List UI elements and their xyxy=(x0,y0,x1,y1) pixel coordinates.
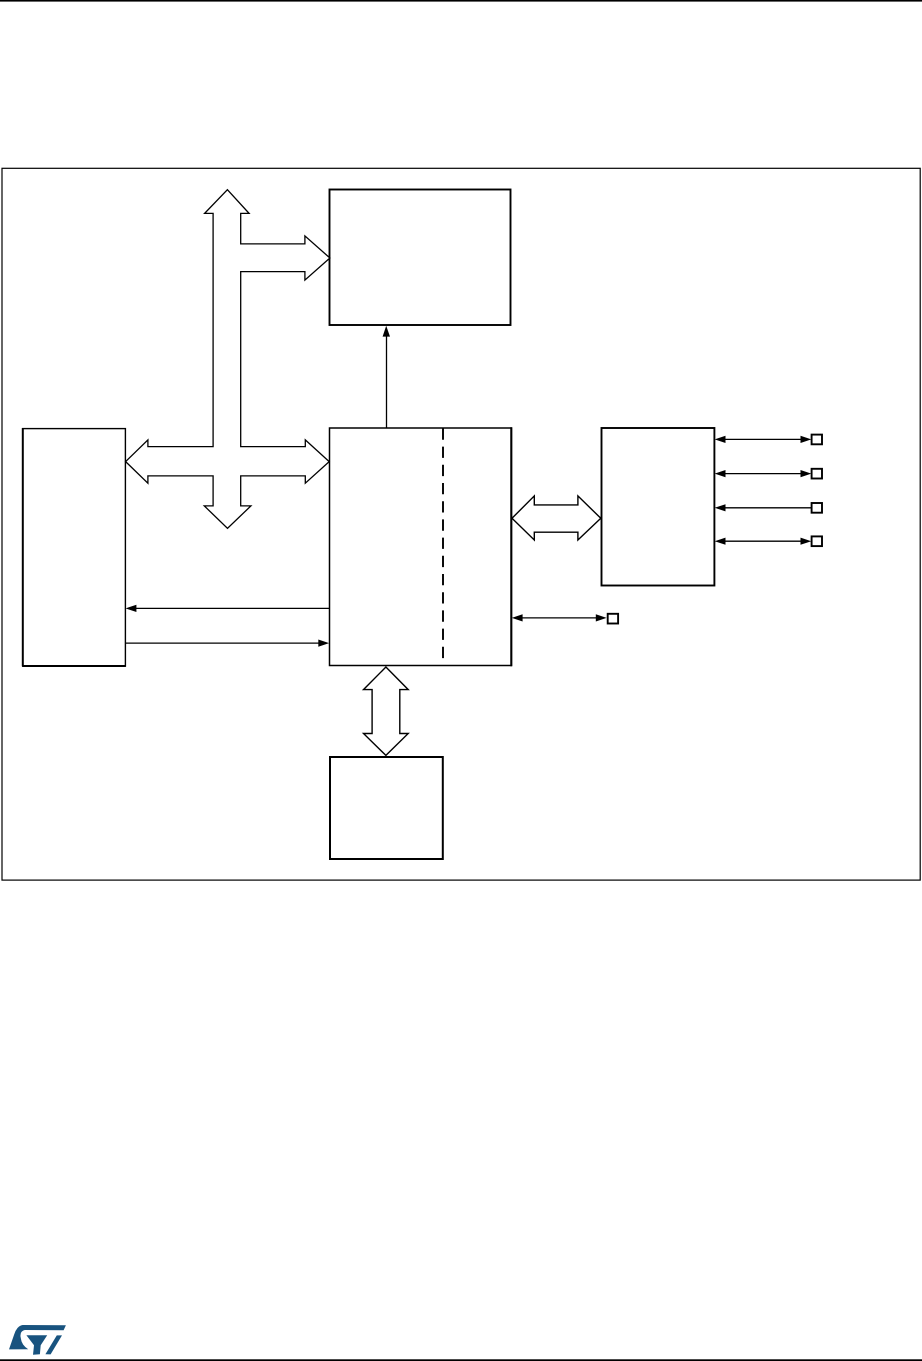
block: left box xyxy=(23,429,126,666)
pin wire 4 (double arrow) xyxy=(724,540,802,542)
arrowhead up into top-right box xyxy=(383,326,390,337)
wire: left box to central box (arrow right) xyxy=(125,642,319,644)
pin square 2 xyxy=(812,469,822,479)
pin wire 1 (double arrow) xyxy=(724,438,802,440)
figure frame xyxy=(2,168,920,880)
block: external memory (top right box) xyxy=(330,190,511,326)
pin square 1 xyxy=(812,435,822,445)
arrowhead right into central box xyxy=(318,640,329,647)
ST logo xyxy=(9,1325,66,1355)
hollow double arrow: central box to bottom box xyxy=(364,667,409,755)
wire: central box up to top-right box xyxy=(386,336,388,428)
footer rule xyxy=(0,1359,922,1361)
pin square (single) xyxy=(608,614,618,624)
pin square 4 xyxy=(812,536,822,546)
wire: central box right edge to pin square (double arrow) xyxy=(522,617,598,619)
arrowhead left into left box xyxy=(126,605,137,612)
dashed partition line in central box xyxy=(442,428,444,665)
pin wire 3 (arrow into box only) xyxy=(724,507,811,509)
hollow double arrow: central box to right box xyxy=(512,496,601,540)
block: central box xyxy=(330,428,512,666)
block: bottom box xyxy=(330,757,443,859)
header rule xyxy=(0,0,922,2)
pin square 3 xyxy=(812,503,822,513)
wire: central box to left box (arrow left) xyxy=(136,607,330,609)
bus arrow (hollow cross with 5 heads) xyxy=(126,190,330,529)
pin wire 2 (double arrow) xyxy=(724,473,802,475)
block: right box xyxy=(602,428,715,586)
